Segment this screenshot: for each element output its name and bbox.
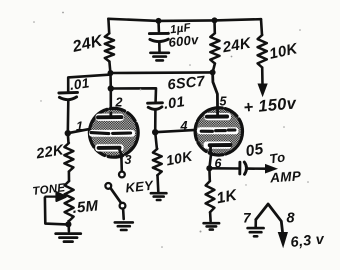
label tube type 6SC7 <box>167 74 207 94</box>
scan specks <box>33 12 309 248</box>
pot R5 wiper arrow <box>45 192 66 201</box>
label R1 24K <box>70 32 105 56</box>
label TONE <box>32 182 66 198</box>
junction dot R1 / plate rail / pin2 branch <box>108 70 114 76</box>
output arrow to amplifier <box>266 165 277 173</box>
label KEY <box>125 178 155 196</box>
wire node C to tube pin 4 <box>155 130 195 132</box>
wire pin2 branch from R1 junction <box>109 73 112 89</box>
label 6,3 v <box>290 231 326 251</box>
resistor R3 10K body <box>258 35 267 68</box>
wire plate rail <box>111 71 213 74</box>
wire R1 bottom to plate rail <box>109 62 110 73</box>
wire pin 7 to ground <box>254 220 257 228</box>
ground below C1 <box>150 53 169 61</box>
capacitor C3 .01 top plate <box>148 101 163 104</box>
triode V1b (6SC7 section 2) envelope and electrodes <box>195 108 242 156</box>
label R2 24K <box>220 35 253 57</box>
capacitor C4 .05 right plate <box>244 162 246 174</box>
wire node A down to pin 2 <box>110 89 113 115</box>
svg-text:8: 8 <box>287 211 296 227</box>
capacitor C1 .1uF top plate <box>149 32 168 35</box>
potentiometer R5 .5M body <box>65 181 74 221</box>
wire R4 to R5 <box>68 172 71 182</box>
capacitor C1 .1uF bottom plate <box>150 39 168 41</box>
wire C1 bottom lead <box>158 42 161 51</box>
wire node B to tube pin 1 <box>68 129 91 133</box>
junction dot grid node A <box>108 85 114 91</box>
wire R7 to ground <box>209 212 212 221</box>
resistor R6 10K body <box>153 149 162 176</box>
label To <box>268 149 286 166</box>
junction dot node C (grid2) <box>152 129 158 135</box>
ground below R5 <box>56 234 81 242</box>
label C1 value .1uF <box>166 22 192 37</box>
wire R2 bottom lead <box>213 64 215 73</box>
junction dot pot bottom <box>65 221 71 227</box>
svg-text:600v: 600v <box>168 32 200 50</box>
svg-text:05: 05 <box>244 140 265 160</box>
label AMP <box>269 168 303 185</box>
wire node C down to R6 <box>155 132 157 149</box>
wire top supply rail <box>108 19 261 21</box>
capacitor C2 .01 top plate <box>59 91 78 94</box>
wire R3 bottom to supply arrow <box>261 68 264 86</box>
svg-text:3: 3 <box>125 153 132 167</box>
label R6 10K <box>165 148 195 169</box>
junction dot at R2 top <box>212 17 218 23</box>
label pin 1 <box>76 120 83 134</box>
label C1 voltage 600v <box>168 32 200 50</box>
wire node A to C3 corner <box>111 88 156 101</box>
triode V1a (6SC7 section 1) envelope and electrodes <box>89 108 138 157</box>
junction dot node D (cathode2) <box>206 165 212 171</box>
wire pin 6 down to node D <box>209 155 211 169</box>
wire top rail corner down to R1 <box>107 19 110 33</box>
key knob contact <box>105 183 111 189</box>
svg-text:1: 1 <box>76 120 83 134</box>
resistor R4 22K body <box>64 143 73 172</box>
label pin 3 <box>125 153 132 167</box>
svg-text:2: 2 <box>115 96 123 110</box>
label R4 22K <box>34 142 66 162</box>
wire C2 bottom lead to node B <box>67 101 70 134</box>
resistor R2 24K body <box>210 33 219 63</box>
wire wiper return to pot bottom <box>45 198 67 225</box>
heater leads pins 7-8 <box>256 204 283 234</box>
capacitor C2 .01 bottom plate <box>59 97 76 100</box>
ground below R6 <box>151 193 167 200</box>
label +150v <box>243 94 298 117</box>
wire pin 5 from plate rail to V1b plate <box>213 72 218 116</box>
wire C3 bottom to node C <box>154 110 157 132</box>
label C2 value .01 <box>69 75 91 93</box>
svg-text:To: To <box>268 149 286 166</box>
wire pot bottom to ground <box>67 221 70 231</box>
key lever arm <box>111 188 122 203</box>
wire key to ground <box>122 209 125 219</box>
svg-text:5: 5 <box>220 95 228 109</box>
label R3 10K <box>268 40 300 63</box>
wire C2 top lead and link to node A <box>68 75 110 92</box>
ground below key <box>115 222 133 230</box>
svg-text:.01: .01 <box>163 94 186 113</box>
arrow to 6.3v heater supply <box>278 233 287 247</box>
label pin 5 <box>220 95 228 109</box>
resistor R1 24K body <box>105 33 114 61</box>
label pin 2 <box>115 96 123 110</box>
key pivot contact <box>120 203 126 209</box>
wire pin 3 of V1a down to key contact <box>120 158 123 172</box>
arrow to +150v supply <box>258 84 267 96</box>
resistor R7 1K body <box>206 181 215 212</box>
wire node D down to R7 <box>208 168 211 181</box>
svg-text:4: 4 <box>180 119 188 133</box>
svg-text:.5M: .5M <box>72 197 100 217</box>
svg-text:.01: .01 <box>69 75 91 93</box>
junction dot at C1 top <box>156 18 162 24</box>
ground below pin 7 <box>248 228 264 236</box>
wire R6 to ground <box>156 175 159 191</box>
ground below R7 <box>204 223 220 229</box>
junction dot node B (grid1) <box>65 130 71 136</box>
label C4 value 05 <box>244 140 265 160</box>
svg-text:7: 7 <box>243 211 252 226</box>
wire R2 top lead <box>213 20 216 33</box>
label pin 8 <box>287 211 296 227</box>
wire pin 2 into plate of V1a <box>109 113 112 117</box>
key fixed contact <box>119 172 125 178</box>
wire C1 top lead <box>157 21 160 31</box>
junction dot plate rail / R2 bottom / pin5 <box>210 69 216 75</box>
label R7 1K <box>215 186 240 207</box>
label R5 value .5M <box>72 197 100 217</box>
wire C4 to output arrow <box>247 167 266 170</box>
capacitor C3 .01 bottom plate <box>148 107 162 109</box>
label C3 value .01 <box>163 94 186 113</box>
svg-text:AMP: AMP <box>269 168 303 185</box>
capacitor C4 .05 left plate <box>238 162 241 174</box>
label pin 7 <box>243 211 252 226</box>
wire top rail corner down to R3 <box>261 19 262 35</box>
label pin 4 <box>180 119 188 133</box>
label pin 6 <box>215 157 223 171</box>
wire node B down to R4 <box>67 133 70 143</box>
wire node D to C4 <box>209 167 238 170</box>
